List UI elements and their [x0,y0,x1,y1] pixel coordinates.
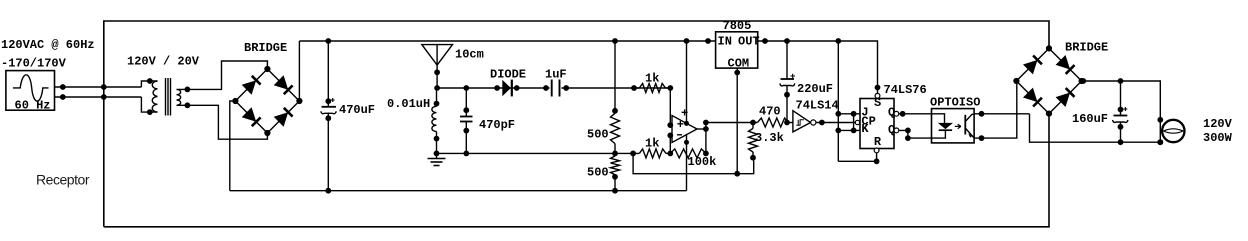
svg-text:3.3k: 3.3k [755,131,784,145]
resistor R4 500 (lower) [611,156,620,175]
optoiso LED [932,114,945,123]
diode bridge BR1: diamond outline [235,69,299,133]
svg-text:+: + [681,107,688,121]
resistor R3 500 (upper) [614,41,616,113]
wire: source output line 2 (y=97) [55,96,142,98]
capacitor C2 470pF [465,88,467,117]
resistor R2 1k (reference) [639,149,666,158]
diode bridge BR2: diode lower-left (left node to bottom node) [1023,88,1038,103]
diode bridge BR1: diode upper-right (top node to right node) [274,75,289,90]
svg-text:Receptor: Receptor [36,172,90,188]
svg-text:BRIDGE: BRIDGE [244,41,287,55]
wire: Qbar output to optoiso pin2 [899,130,932,138]
transformer T1 core [165,78,167,116]
wire A: reference node to 3.3k bottom [633,153,754,173]
wire: reference/ground line y=153.4 [437,152,640,154]
svg-text:120V / 20V: 120V / 20V [127,55,200,69]
svg-text:500: 500 [587,128,609,142]
diode D1 (DIODE) [502,80,511,96]
wire: R input from below [838,153,876,162]
74LS14 hysteresis symbol [796,120,804,125]
diode bridge BR1: node dots [264,66,270,72]
op-amp U1 V- supply to ground rail [686,135,688,191]
op-amp U1 (comparator) triangle [672,116,697,143]
wire: Q output to optoiso pin1 [899,113,932,115]
svg-text:OUT: OUT [738,35,760,49]
diode bridge BR1: diode upper-left (left node to top node) [242,80,257,95]
svg-text:K: K [861,122,869,136]
plus sign for C4 [791,74,796,79]
svg-text:300W: 300W [1203,131,1233,145]
AC source V1 sine wave [13,75,49,101]
svg-text:74LS76: 74LS76 [884,83,927,97]
wire: 1k to op-amp + input [669,88,671,125]
transformer T1 secondary winding [177,89,188,105]
resistor R7 3.3k [752,123,754,129]
capacitor C5 160uF [1120,81,1122,116]
wire: 74LS14 output to CP [816,122,860,124]
74LS76 Q output bubble [894,111,899,116]
wire: op-amp output [697,128,706,130]
wire: J-K-R pull-up vertical [837,41,839,161]
optoisolator U5 box [932,109,975,143]
flip-flop U3 74LS76 box [860,99,894,149]
wire: +V rail (bridge1 to 7805 IN) [299,40,715,42]
ground symbol [436,153,438,158]
diode bridge BR1: diode lower-right (bottom node to right node) [274,112,289,127]
resistor R1 1k (top) [639,84,665,93]
svg-text:IN: IN [718,35,732,49]
transformer T1 primary winding [152,81,157,112]
svg-text:160uF: 160uF [1072,112,1108,126]
wire: RF signal line y=88 [437,87,670,89]
load lamp 120V 300W [1162,120,1184,142]
svg-text:0.01uH: 0.01uH [387,97,430,111]
inductor L1 0.01uH [436,88,438,106]
wire: J-K tie [853,114,855,131]
wire: output row y=122.5 to 470 [706,122,758,124]
wire: K input [838,129,860,131]
wire: optoiso emitter out to bridge2 left node [974,81,1017,138]
capacitor C3 1uF [550,80,562,96]
wire: bridge1 right node up to +V rail [298,41,300,101]
optoiso phototransistor [964,115,966,135]
svg-text:COM: COM [728,57,750,71]
svg-text:1k: 1k [645,137,659,151]
svg-text:1uF: 1uF [545,68,567,82]
plus sign for C5 [1123,107,1127,111]
wire: secondary bottom to bridge1 bottom node [187,105,267,139]
74LS14 output bubble [811,120,816,125]
wire: 470 to 74LS14 input [789,122,793,124]
svg-text:DIODE: DIODE [490,68,526,82]
diode bridge BR2: diode upper-left (left node to top node) [1023,60,1038,75]
wire: bridge1 left node to ground rail [230,101,236,191]
resistor R6 470 [757,118,788,127]
svg-text:R: R [874,135,882,149]
wire: bridge2 right node to load column [1082,81,1161,142]
capacitor C4 220uF [786,41,788,79]
svg-text:-170/170V: -170/170V [1,57,67,71]
74LS76 Qbar output bubble [894,128,899,133]
svg-text:120VAC @ 60Hz: 120VAC @ 60Hz [1,38,95,52]
optoiso coupling arrow [955,124,961,129]
diode bridge BR2: diamond outline [1016,48,1081,113]
svg-text:BRIDGE: BRIDGE [1065,41,1108,55]
op-amp U1 V+ supply from rail [686,41,688,123]
svg-text:7805: 7805 [723,19,752,33]
resistor R5 100k feedback [670,149,706,158]
wire: optoiso collector out [974,113,1029,115]
wire: AC mains loop bottom edge + rise to right bridge bottom node [104,114,1049,227]
svg-text:100k: 100k [688,155,717,169]
wire: source output line 1 (y=87) [55,86,142,88]
plus sign for C1 [331,98,335,102]
svg-text:220uF: 220uF [797,82,833,96]
wire: AC mains loop top edge + drop to right bridge top node [104,21,1049,227]
svg-text:60 Hz: 60 Hz [15,99,51,113]
diode bridge BR2: diode lower-right (bottom node to right node) [1056,93,1071,108]
svg-text:10cm: 10cm [455,48,484,62]
diode bridge BR2: diode upper-right (top node to right node) [1056,55,1071,70]
svg-text:470: 470 [759,105,781,119]
wire: 7805 COM to reference node [736,68,738,174]
74LS76 R input bubble [874,148,879,153]
74LS76 S input bubble [877,88,879,94]
wire: collector line down to load bottom row [1030,114,1161,142]
antenna (10cm) [422,45,453,66]
diode bridge BR1: diode lower-left (left node to bottom node) [242,107,257,122]
wire: ground rail [230,190,687,192]
wire: +V rail (7805 OUT side) [758,41,878,88]
AC source V1 box [6,71,55,111]
wire: secondary top to bridge1 top node [187,61,267,89]
inverter U2 74LS14 [793,111,811,132]
transformer T1 primary jog wires [141,81,157,87]
svg-text:120V: 120V [1203,117,1233,131]
svg-text:500: 500 [587,166,609,180]
wire: J input [838,113,860,115]
diode bridge BR2: node dots [1046,45,1052,51]
74LS76 CP input bubble [855,120,859,124]
op-amp U1 inverting input wire [669,135,671,153]
capacitor C1 470uF leads [327,41,329,107]
regulator U4 7805 box [716,32,758,68]
svg-text:74LS14: 74LS14 [796,99,839,113]
svg-text:1k: 1k [645,72,659,86]
capacitor C1 470uF plates [322,106,337,108]
svg-text:OPTOISO: OPTOISO [930,96,980,110]
svg-text:470uF: 470uF [339,103,375,117]
svg-text:470pF: 470pF [479,118,515,132]
